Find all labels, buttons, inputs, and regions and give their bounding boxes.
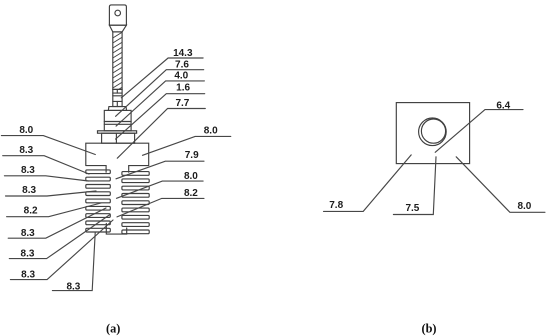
- figure b: [396, 103, 469, 164]
- svg-text:8.3: 8.3: [19, 145, 33, 156]
- label 7.6 leader: [116, 70, 204, 117]
- label 8.3 L6 leader: [10, 220, 113, 280]
- right fin 9: [122, 230, 149, 234]
- label 8.2 left leader: [7, 203, 101, 217]
- label 14.3 leader: [121, 58, 203, 98]
- svg-text:8.3: 8.3: [21, 165, 35, 176]
- hole inner circle: [421, 119, 445, 143]
- right fin 7: [122, 215, 149, 219]
- svg-text:7.6: 7.6: [175, 59, 189, 70]
- svg-text:8.3: 8.3: [22, 185, 36, 196]
- label 6.4 leader: [435, 110, 523, 153]
- right fin 5: [122, 201, 149, 205]
- right fin 4: [122, 194, 149, 198]
- svg-text:6.4: 6.4: [496, 101, 510, 112]
- label 7.7 leader: [117, 109, 205, 159]
- svg-text:7.8: 7.8: [329, 200, 343, 211]
- right fin 3: [122, 186, 149, 190]
- upper block band: [104, 121, 131, 123]
- label 8.0 right2 leader: [117, 181, 204, 198]
- label 8.3 L4 leader: [8, 208, 106, 238]
- svg-text:8.3: 8.3: [66, 281, 80, 292]
- label 8.0 b leader: [456, 157, 545, 213]
- left fin 9: [86, 228, 111, 232]
- right fin 1: [122, 172, 149, 176]
- label 7.8 leader: [324, 155, 412, 212]
- svg-text:8.2: 8.2: [24, 205, 38, 216]
- label 8.3 L1 leader: [3, 156, 89, 174]
- svg-text:8.0: 8.0: [204, 126, 218, 137]
- left fin 2: [86, 177, 111, 181]
- label 8.0 right leader: [143, 136, 231, 155]
- left fin 1: [86, 170, 111, 174]
- svg-text:8.3: 8.3: [21, 270, 35, 281]
- svg-text:7.9: 7.9: [185, 150, 199, 161]
- svg-text:8.3: 8.3: [21, 228, 35, 239]
- left fin 3: [86, 185, 111, 189]
- left fin 4: [86, 192, 111, 196]
- plate rect: [396, 103, 469, 164]
- neck block: [102, 133, 135, 143]
- left fin 5: [86, 199, 111, 203]
- tab hole: [115, 10, 121, 16]
- flange bar: [98, 131, 137, 133]
- label 1.6 leader: [116, 94, 205, 139]
- label 7.5 leader: [393, 157, 436, 215]
- left fin 8: [86, 221, 111, 225]
- label 8.0 left leader: [1, 136, 95, 155]
- svg-text:4.0: 4.0: [174, 71, 188, 82]
- right fin 2: [122, 179, 149, 183]
- right fin 8: [122, 223, 149, 227]
- label 8.3 L2 leader: [4, 176, 88, 181]
- neck mid line: [115, 133, 117, 143]
- svg-text:(b): (b): [421, 321, 436, 335]
- label 4.0 leader: [116, 81, 204, 126]
- svg-text:8.0: 8.0: [19, 125, 33, 136]
- svg-text:8.0: 8.0: [184, 171, 198, 182]
- svg-text:8.2: 8.2: [184, 188, 198, 199]
- taper below tab: [109, 25, 126, 32]
- threaded rod: [113, 32, 122, 93]
- svg-text:1.6: 1.6: [176, 83, 190, 94]
- left fin 7: [86, 214, 111, 218]
- main body: [86, 143, 149, 172]
- hole outer circle: [419, 118, 447, 146]
- svg-text:7.7: 7.7: [175, 98, 189, 109]
- terminal tab: [109, 5, 126, 25]
- collar: [108, 107, 126, 111]
- upper block: [104, 110, 131, 130]
- right fin 6: [122, 208, 149, 212]
- label 8.3 L5 leader: [9, 215, 110, 259]
- svg-text:14.3: 14.3: [173, 48, 193, 59]
- label 8.2 right leader: [117, 198, 204, 217]
- svg-text:8.3: 8.3: [21, 249, 35, 260]
- left fin 6: [86, 206, 111, 210]
- rod lower segments: [113, 89, 122, 106]
- label 8.3 bottom leader: [52, 233, 95, 291]
- svg-text:8.0: 8.0: [517, 201, 531, 212]
- svg-text:7.5: 7.5: [405, 203, 419, 214]
- bottom block: [106, 224, 126, 235]
- label 7.9 leader: [116, 161, 204, 179]
- svg-text:(a): (a): [106, 321, 120, 335]
- label 8.3 L3 leader: [6, 191, 97, 196]
